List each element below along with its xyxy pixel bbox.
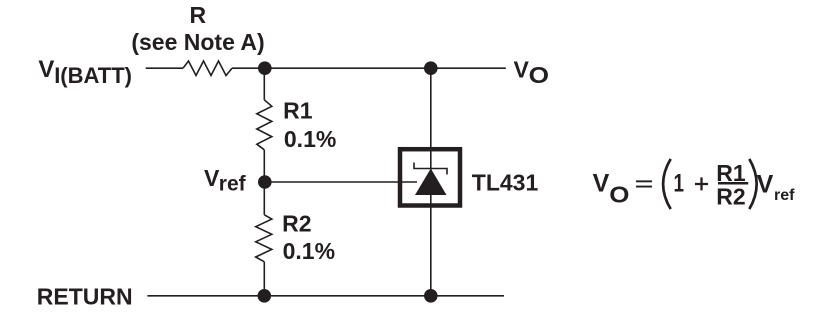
svg-text:R2: R2: [716, 183, 745, 209]
svg-text:V: V: [38, 56, 54, 83]
svg-text:R1: R1: [283, 98, 313, 124]
svg-text:RETURN: RETURN: [37, 283, 133, 309]
svg-text:ref: ref: [774, 187, 795, 204]
svg-text:TL431: TL431: [472, 169, 539, 195]
svg-text:R: R: [189, 2, 206, 28]
svg-text:I(BATT): I(BATT): [54, 63, 132, 88]
svg-text:ref: ref: [219, 172, 247, 195]
svg-text:R2: R2: [282, 211, 311, 237]
svg-text:V: V: [514, 57, 530, 83]
svg-text:V: V: [204, 165, 220, 191]
svg-text:1: 1: [674, 170, 685, 198]
svg-text:(see Note A): (see Note A): [131, 29, 264, 55]
svg-text:O: O: [529, 62, 549, 88]
svg-text:0.1%: 0.1%: [284, 126, 336, 152]
svg-text:V: V: [593, 169, 610, 197]
svg-text:V: V: [757, 171, 774, 199]
svg-text:0.1%: 0.1%: [283, 238, 335, 264]
svg-text:O: O: [609, 182, 629, 208]
